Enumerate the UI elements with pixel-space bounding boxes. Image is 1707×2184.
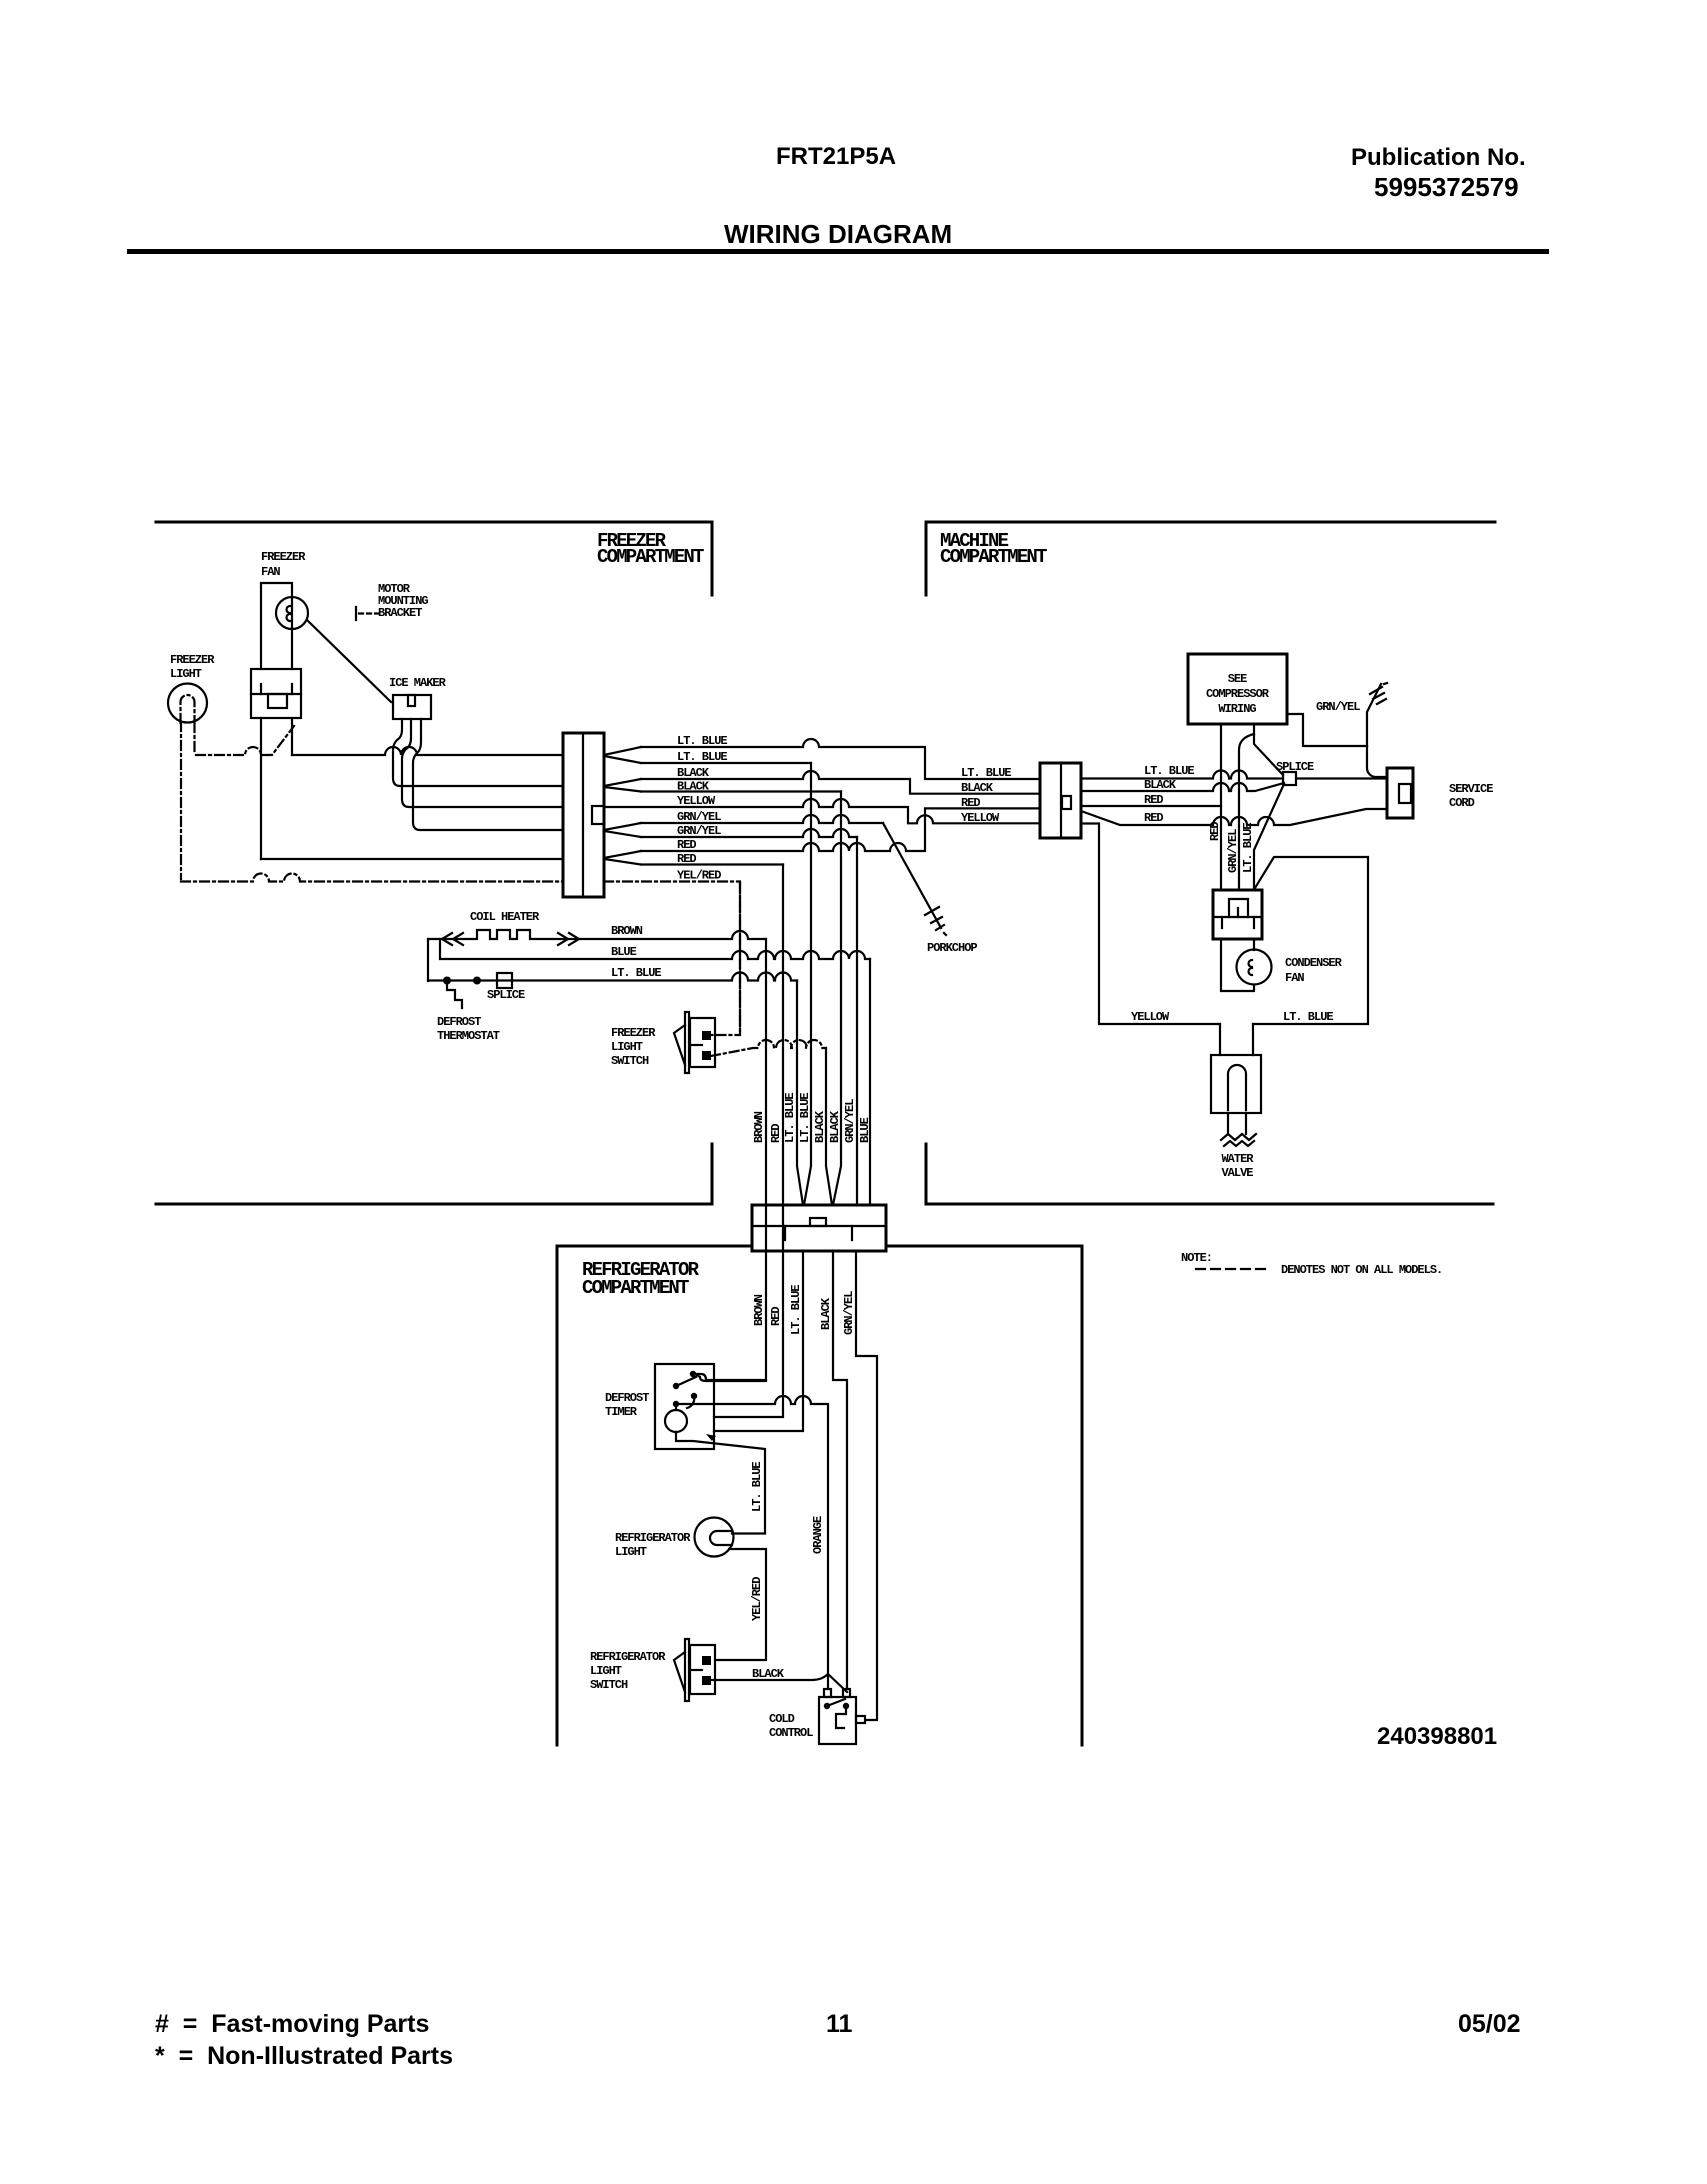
black pair fanout	[604, 779, 641, 792]
svg-text:RED: RED	[769, 1307, 783, 1326]
cold control lever	[827, 1699, 845, 1706]
machine connector block	[1040, 763, 1081, 838]
blue vertical	[869, 959, 871, 1205]
wire yel/red dashed right of connector	[604, 882, 740, 1036]
freezer fan plug connector	[251, 669, 301, 718]
timer hook	[687, 1396, 694, 1408]
grn/yel riser with ground	[1367, 684, 1381, 746]
junction dot 2	[473, 977, 481, 985]
timer motor lead to lt.blue	[676, 1432, 765, 1533]
svg-text:BLACK: BLACK	[677, 780, 710, 794]
svg-text:FREEZER: FREEZER	[261, 550, 306, 564]
svg-text:# = Fast-moving Parts: # = Fast-moving Parts	[155, 2010, 429, 2038]
motor mounting bracket symbol	[356, 607, 378, 620]
water valve tails	[1228, 1113, 1246, 1134]
freezer fan motor coils	[287, 606, 291, 621]
grn/yel pair fanout	[604, 823, 641, 837]
black vertical b	[833, 792, 841, 1206]
svg-text:RED: RED	[1144, 793, 1163, 807]
refrigerator light switch plate	[685, 1639, 689, 1701]
refrigerator light top lead	[732, 1532, 765, 1534]
relay pins	[1222, 917, 1254, 928]
compressor left lead / red riser	[1220, 724, 1222, 890]
red wire from fan plug to connector	[261, 858, 563, 860]
freezer light filament	[181, 695, 195, 723]
timer contact dot 3	[691, 1393, 697, 1399]
wire grn/yel lower (to bundle)	[641, 829, 857, 837]
svg-text:COLD: COLD	[769, 1712, 795, 1726]
svg-text:FAN: FAN	[1285, 971, 1304, 985]
svg-text:LT. BLUE: LT. BLUE	[677, 734, 727, 748]
ice maker connector	[393, 695, 431, 719]
yel/red dashed vertical	[739, 883, 741, 1035]
svg-text:DEFROST: DEFROST	[605, 1391, 649, 1405]
splice2 square	[497, 973, 512, 988]
svg-text:COMPARTMENT: COMPARTMENT	[597, 546, 704, 568]
freezer light switch pin top	[702, 1031, 711, 1040]
freezer light switch bar	[692, 1044, 702, 1046]
svg-text:FREEZER: FREEZER	[611, 1026, 656, 1040]
svg-text:FRT21P5A: FRT21P5A	[776, 143, 896, 170]
wire grn/yel upper (to porkchop)	[641, 815, 883, 823]
svg-text:GRN/YEL: GRN/YEL	[843, 1099, 857, 1143]
svg-text:LIGHT: LIGHT	[590, 1664, 622, 1678]
condenser fan motor	[1237, 950, 1272, 985]
svg-text:BLACK: BLACK	[677, 766, 710, 780]
splice to relay diagonal	[1254, 784, 1284, 890]
condenser fan leads	[1221, 939, 1254, 991]
ice maker connector tab	[408, 695, 415, 706]
motor mounting bracket pointer	[307, 620, 391, 702]
fan plug inner tab	[268, 694, 287, 708]
lt.blue wire from fan plug to connector	[292, 747, 563, 755]
machine connector tab	[1062, 796, 1071, 809]
horizontal rule	[127, 249, 1549, 254]
svg-text:SPLICE: SPLICE	[487, 988, 525, 1002]
timer contact dot 1	[690, 1371, 696, 1377]
svg-text:BLACK: BLACK	[819, 1297, 833, 1330]
see compressor wiring box	[1188, 654, 1287, 724]
wide connector pins	[785, 1226, 852, 1240]
timer motor	[665, 1410, 687, 1432]
service cord connector	[1387, 768, 1413, 818]
water valve body	[1211, 1055, 1261, 1113]
defrost thermostat lead	[447, 984, 462, 1008]
refrigerator light bottom lead	[716, 1549, 766, 1660]
lt.blue wire to splice	[1081, 771, 1283, 779]
yellow loop wire	[1082, 824, 1220, 1025]
svg-text:BLACK: BLACK	[828, 1110, 842, 1143]
wire black lower (to bundle)	[641, 790, 841, 792]
wire yellow	[604, 799, 1040, 823]
svg-text:BLACK: BLACK	[1144, 778, 1177, 792]
timer contact dot 2	[673, 1383, 679, 1389]
brown vertical	[697, 939, 766, 1381]
red pair fanout	[604, 851, 641, 865]
svg-text:05/02: 05/02	[1458, 2010, 1521, 2038]
svg-text:LT. BLUE: LT. BLUE	[789, 1285, 803, 1335]
wide connector tab	[810, 1218, 826, 1226]
svg-text:GRN/YEL: GRN/YEL	[677, 824, 721, 838]
black wire switch to cold control	[711, 1674, 847, 1692]
svg-text:YELLOW: YELLOW	[677, 794, 716, 808]
svg-text:LIGHT: LIGHT	[170, 667, 202, 681]
fan plug pin ticks	[261, 684, 292, 694]
svg-text:FAN: FAN	[261, 565, 280, 579]
svg-text:GRN/YEL: GRN/YEL	[677, 810, 721, 824]
coil heater element with humps	[428, 930, 766, 939]
blue wire from heater	[440, 939, 870, 959]
svg-text:GRN/YEL: GRN/YEL	[842, 1291, 856, 1335]
water valve leads	[1220, 1024, 1253, 1055]
fan plug pin right (lt.blue lead)	[291, 718, 293, 755]
wire lt.blue upper	[641, 739, 1040, 779]
red wire 2 to service cord	[1081, 809, 1387, 825]
svg-text:PORKCHOP: PORKCHOP	[927, 941, 977, 955]
svg-text:VALVE: VALVE	[1221, 1166, 1253, 1180]
coil heater left drop	[427, 939, 429, 981]
svg-text:LIGHT: LIGHT	[611, 1040, 643, 1054]
compressor right lead to splice	[1254, 724, 1283, 775]
svg-text:LT. BLUE: LT. BLUE	[798, 1093, 812, 1143]
svg-text:BROWN: BROWN	[752, 1294, 766, 1326]
cold control right pin	[856, 1716, 865, 1723]
svg-text:BLACK: BLACK	[752, 1667, 785, 1681]
svg-text:* = Non-Illustrated Parts: * = Non-Illustrated Parts	[155, 2042, 453, 2070]
svg-text:THERMOSTAT: THERMOSTAT	[437, 1029, 500, 1043]
svg-text:Publication No.: Publication No.	[1351, 144, 1526, 171]
svg-text:REFRIGERATOR: REFRIGERATOR	[590, 1650, 666, 1664]
svg-text:RED: RED	[1144, 811, 1163, 825]
freezer fan body	[261, 583, 292, 669]
svg-text:YEL/RED: YEL/RED	[677, 869, 721, 883]
svg-text:COMPRESSOR: COMPRESSOR	[1206, 687, 1270, 701]
coil heater right arrows	[558, 933, 579, 945]
timer wire to orange	[676, 1396, 828, 1689]
coil heater left arrows	[442, 933, 463, 945]
svg-text:COMPARTMENT: COMPARTMENT	[940, 546, 1047, 568]
freezer light switch plate	[685, 1012, 689, 1073]
yel/red dashed wire to connector	[181, 874, 563, 882]
freezer light lead yel/red (dashed)	[180, 722, 182, 879]
machine compartment box	[926, 522, 1495, 1204]
svg-text:DEFROST: DEFROST	[437, 1015, 481, 1029]
freezer fan motor	[276, 597, 308, 629]
svg-text:SEE: SEE	[1228, 672, 1247, 686]
refrigerator light switch pin bottom	[702, 1676, 711, 1685]
grn/yel vertical	[856, 837, 877, 1720]
svg-text:WIRING: WIRING	[1218, 702, 1256, 716]
black vertical a	[826, 1048, 847, 1689]
relay inner tab	[1229, 899, 1248, 917]
porkchop pointer line	[883, 823, 941, 928]
svg-text:SWITCH: SWITCH	[590, 1678, 628, 1692]
ice maker grn/yel pin wire	[413, 719, 563, 830]
lt.blue loop wire	[1253, 857, 1368, 1024]
refrigerator light switch wedge	[674, 1652, 685, 1692]
svg-text:LIGHT: LIGHT	[615, 1545, 647, 1559]
cold control pin right	[843, 1689, 850, 1697]
freezer connector block	[563, 733, 604, 897]
lt.blue wire from splice2	[428, 973, 797, 981]
svg-text:RED: RED	[677, 852, 696, 866]
relay grn/yel riser	[1239, 734, 1254, 890]
svg-text:CONDENSER: CONDENSER	[1285, 956, 1343, 970]
note dashed sample	[1196, 1268, 1269, 1270]
svg-text:240398801: 240398801	[1377, 1723, 1497, 1750]
cold control dot right	[843, 1703, 849, 1709]
ground ticks	[1370, 683, 1387, 704]
service cord inner tab	[1399, 784, 1411, 803]
lt.blue vertical b	[804, 763, 811, 1205]
svg-text:RED: RED	[769, 1124, 783, 1143]
cold control dot left	[824, 1703, 830, 1709]
freezer light bulb	[168, 684, 207, 723]
lt.blue pair fanout	[604, 747, 641, 763]
cold control box	[819, 1697, 856, 1744]
svg-text:BLACK: BLACK	[813, 1110, 827, 1143]
cold control pin left	[824, 1689, 831, 1697]
svg-text:WIRING DIAGRAM: WIRING DIAGRAM	[724, 219, 952, 249]
svg-text:FREEZER: FREEZER	[170, 653, 215, 667]
water valve coil	[1228, 1065, 1246, 1110]
svg-text:CORD: CORD	[1449, 796, 1475, 810]
svg-text:BROWN: BROWN	[752, 1111, 766, 1143]
timer lever	[676, 1377, 696, 1386]
freezer light switch body	[690, 1018, 715, 1067]
wire red lower (to bundle)	[641, 863, 783, 865]
svg-text:GRN/YEL: GRN/YEL	[1316, 700, 1360, 714]
svg-text:GRN/YEL: GRN/YEL	[1226, 829, 1240, 873]
red wire to compressor tee	[1081, 805, 1221, 807]
svg-text:RED: RED	[961, 796, 980, 810]
svg-text:YELLOW: YELLOW	[1131, 1010, 1170, 1024]
svg-text:COIL HEATER: COIL HEATER	[470, 910, 540, 924]
svg-text:LT. BLUE: LT. BLUE	[961, 766, 1011, 780]
svg-text:LT. BLUE: LT. BLUE	[1241, 823, 1255, 873]
refrigerator light switch body	[690, 1645, 715, 1694]
ice maker black pin wire	[393, 719, 563, 786]
wire red upper (to machine riser)	[641, 808, 1040, 851]
ice maker yellow pin wire	[402, 719, 563, 807]
freezer light lead to lt.blue (dashed)	[195, 723, 295, 755]
freezer light switch wedge	[674, 1025, 685, 1065]
svg-text:BLACK: BLACK	[961, 781, 994, 795]
svg-text:REFRIGERATOR: REFRIGERATOR	[615, 1531, 691, 1545]
splice square	[1283, 772, 1296, 785]
svg-text:LT. BLUE: LT. BLUE	[783, 1093, 797, 1143]
svg-text:LT. BLUE: LT. BLUE	[677, 750, 727, 764]
svg-text:RED: RED	[1208, 822, 1222, 841]
svg-text:ICE MAKER: ICE MAKER	[389, 676, 447, 690]
svg-text:BROWN: BROWN	[611, 924, 643, 938]
black wire to splice	[1081, 783, 1284, 791]
svg-text:YELLOW: YELLOW	[961, 811, 1000, 825]
lt.blue wire splice to service cord	[1296, 777, 1387, 779]
svg-text:COMPARTMENT: COMPARTMENT	[582, 1277, 689, 1299]
defrost timer box	[655, 1364, 714, 1449]
freezer light switch lower dashed wire	[711, 1040, 826, 1056]
junction dot 1	[443, 977, 451, 985]
wire lt.blue lower (to bundle)	[641, 762, 811, 764]
svg-text:DENOTES NOT ON ALL MODELS.: DENOTES NOT ON ALL MODELS.	[1281, 1263, 1442, 1277]
water valve break marks	[1221, 1134, 1256, 1146]
cold control step	[836, 1706, 846, 1728]
grn/yel wire from compressor box	[1287, 714, 1367, 746]
svg-text:LT. BLUE: LT. BLUE	[611, 966, 661, 980]
svg-text:SERVICE: SERVICE	[1449, 782, 1493, 796]
svg-text:11: 11	[826, 2010, 853, 2038]
svg-text:LT. BLUE: LT. BLUE	[1144, 764, 1194, 778]
svg-text:NOTE:: NOTE:	[1181, 1251, 1212, 1265]
svg-text:RED: RED	[677, 838, 696, 852]
timer wire to brown	[693, 1374, 766, 1380]
fan plug pin left (red lead)	[260, 718, 262, 859]
porkchop ground ticks	[925, 907, 946, 935]
red vertical	[714, 865, 783, 1418]
lt.blue vertical a	[714, 981, 803, 1432]
svg-text:CONTROL: CONTROL	[769, 1726, 813, 1740]
refrigerator compartment box	[557, 1246, 1082, 1745]
freezer compartment box	[156, 522, 712, 1204]
svg-text:SWITCH: SWITCH	[611, 1054, 649, 1068]
freezer light switch pin bottom	[702, 1051, 711, 1060]
refrigerator light bulb	[695, 1518, 734, 1557]
timer lead arrowhead	[706, 1434, 716, 1441]
svg-text:WATER: WATER	[1221, 1152, 1254, 1166]
svg-text:5995372579: 5995372579	[1374, 172, 1519, 202]
svg-text:BLUE: BLUE	[611, 945, 637, 959]
svg-text:ORANGE: ORANGE	[811, 1516, 825, 1554]
wire black upper	[641, 771, 1040, 794]
freezer connector tab	[592, 806, 604, 824]
svg-text:LT. BLUE: LT. BLUE	[1283, 1010, 1333, 1024]
timer contact dot 4	[673, 1401, 679, 1407]
svg-text:LT. BLUE: LT. BLUE	[750, 1462, 764, 1512]
condenser fan coils	[1249, 960, 1253, 975]
grn/yel drop to service cord	[1367, 746, 1387, 777]
svg-text:YEL/RED: YEL/RED	[750, 1577, 764, 1621]
refrigerator light switch bar	[692, 1669, 702, 1671]
svg-text:BLUE: BLUE	[858, 1117, 872, 1143]
relay connector block	[1213, 890, 1262, 939]
wide connector block	[752, 1205, 886, 1251]
svg-text:BRACKET: BRACKET	[378, 606, 422, 620]
refrigerator light filament	[710, 1531, 732, 1545]
svg-text:TIMER: TIMER	[605, 1405, 638, 1419]
refrigerator light switch pin top	[702, 1656, 711, 1665]
